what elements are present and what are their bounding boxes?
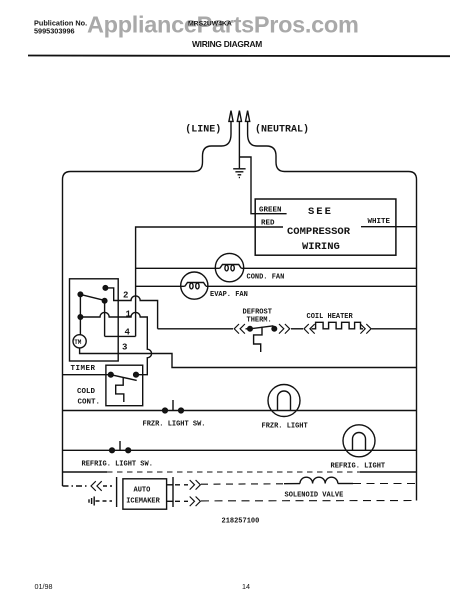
wire [246,328,251,330]
defrost thermostat [248,326,277,352]
svg-text:COMPRESSOR: COMPRESSOR [287,226,351,238]
connector plug out bottom [190,497,201,507]
wire to right bus [372,328,417,330]
svg-text:WHITE: WHITE [368,218,391,226]
connector plug out top [190,480,201,490]
cold control arm [111,375,137,381]
wire terminal 3 row [80,348,417,368]
wire terminal 4 row [105,335,136,337]
coil solenoid valve [300,477,338,483]
svg-text:SOLENOID VALVE: SOLENOID VALVE [285,492,344,500]
connector plug left of defrost therm [234,324,245,334]
cold control box [106,365,143,406]
plug prong ground [237,111,241,169]
svg-text:THERM.: THERM. [247,316,272,324]
svg-text:MRS2UW4KA: MRS2UW4KA [188,21,232,28]
wire terminal 2 out [105,288,157,329]
wire left bus [62,180,64,487]
ground [233,169,245,178]
svg-text:ICEMAKER: ICEMAKER [126,498,160,506]
svg-text:TIMER: TIMER [71,365,96,373]
cold control bellows [116,378,124,402]
timer switch arm [80,294,104,300]
wire D2 down to row1 [79,294,81,335]
svg-text:CONT.: CONT. [78,399,101,407]
switch S2 refrig light sw [110,441,131,453]
svg-text:EVAP. FAN: EVAP. FAN [210,291,248,299]
svg-text:01/98: 01/98 [35,582,53,591]
node D4 [78,315,83,320]
icemaker plug bar right [172,477,174,507]
switch S1 frzr light sw [163,400,184,413]
timer motor TM [73,335,86,348]
compressor box U1 SEE COMPRESSOR WIRING [255,199,396,255]
svg-text:COIL HEATER: COIL HEATER [307,313,354,321]
svg-text:1: 1 [126,310,132,320]
wire top boundary right [285,172,417,180]
connector plug icemaker left [91,481,102,491]
node D3 [102,298,107,303]
svg-text:5995303996: 5995303996 [34,27,75,36]
wire icemaker bypass line [63,471,417,473]
heater R1 coil heater [312,322,364,329]
wire evap fan row [136,285,185,287]
svg-text:WIRING DIAGRAM: WIRING DIAGRAM [192,39,262,49]
svg-text:4: 4 [125,328,131,338]
wire red from compressor [136,227,283,336]
svg-text:SEE: SEE [308,206,333,218]
timer box [70,279,119,361]
ground icemaker chassis [89,497,112,506]
svg-text:AUTO: AUTO [134,487,151,495]
svg-text:218257100: 218257100 [222,518,260,526]
wire icemaker out top [167,484,173,486]
svg-text:COND. FAN: COND. FAN [247,273,285,281]
node D1 terminal 2 contact [103,286,108,291]
wire cond fan row [136,267,220,269]
svg-text:FRZR. LIGHT: FRZR. LIGHT [262,422,308,430]
wire terminal 1 row [80,312,151,374]
lamp L2 refrig light [343,425,375,457]
svg-text:14: 14 [242,582,250,591]
svg-text:COLD: COLD [77,388,96,396]
node cold control left [108,372,113,377]
wire icemaker feed dash-dot [63,485,89,487]
wire left bus to cold control [63,374,111,376]
svg-text:GREEN: GREEN [259,207,282,215]
icemaker plug bar left [116,477,118,507]
node cold control right [134,372,139,377]
svg-text:3: 3 [122,343,127,353]
node D2 timer arm pivot [78,292,83,297]
connector plug right of defrost therm [279,324,290,334]
connector plug right of coil heater [360,324,371,334]
wire [291,328,303,330]
svg-text:DEFROST: DEFROST [243,308,272,316]
wire to right bus corner [201,500,417,502]
plug prong line [194,111,233,172]
icemaker box [123,479,167,509]
wire solenoid to right bus [338,483,353,485]
wire icemaker out bottom [167,500,173,502]
svg-text:TM: TM [74,339,82,346]
wire D3 to terminal 4 row [104,301,106,337]
wire green jumper to compressor [239,157,286,214]
svg-text:FRZR. LIGHT SW.: FRZR. LIGHT SW. [143,421,206,429]
lamp L1 frzr light [268,385,300,417]
header rule [28,55,450,58]
wire [103,485,112,487]
wire top boundary left [63,172,195,180]
connector plug left of coil heater [304,324,315,334]
svg-text:(NEUTRAL): (NEUTRAL) [255,124,309,136]
wire frzr light row [63,410,417,412]
wire right bus [416,180,418,501]
motor M1 cond fan [215,253,243,281]
plug prong neutral [246,111,285,172]
svg-text:REFRIG. LIGHT SW.: REFRIG. LIGHT SW. [82,460,153,468]
wire white to right bus [361,226,417,228]
svg-text:REFRIG. LIGHT: REFRIG. LIGHT [331,463,386,471]
motor M2 evap fan [181,272,208,299]
wire to solenoid [201,483,284,485]
wire defrost row [158,328,233,330]
svg-text:WIRING: WIRING [302,241,340,253]
svg-text:(LINE): (LINE) [185,124,221,136]
wire refrig light row [63,449,417,451]
svg-text:2: 2 [123,291,128,301]
